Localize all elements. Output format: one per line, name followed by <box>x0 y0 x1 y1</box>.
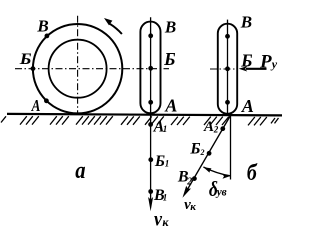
svg-text:Б: Б <box>189 140 200 157</box>
svg-text:А: А <box>164 96 177 116</box>
svg-text:1: 1 <box>163 124 168 134</box>
svg-text:Б: Б <box>163 49 175 69</box>
svg-text:P: P <box>259 52 272 73</box>
svg-text:у: у <box>270 57 278 71</box>
svg-text:1: 1 <box>163 192 168 202</box>
svg-text:ув: ув <box>215 185 227 199</box>
svg-text:А: А <box>203 119 214 135</box>
svg-text:Б: Б <box>19 51 32 68</box>
svg-text:2: 2 <box>213 124 219 134</box>
svg-text:В: В <box>36 17 48 36</box>
svg-text:а: а <box>75 158 85 184</box>
svg-text:б: б <box>247 160 258 185</box>
svg-text:А: А <box>31 96 41 115</box>
svg-text:к: к <box>162 215 169 229</box>
svg-text:В: В <box>240 13 252 32</box>
svg-text:В: В <box>164 17 176 36</box>
svg-text:2: 2 <box>186 177 192 188</box>
svg-text:к: к <box>190 201 196 213</box>
svg-text:Б: Б <box>154 153 165 170</box>
svg-text:А: А <box>241 96 254 116</box>
svg-text:v: v <box>154 206 163 230</box>
svg-text:Б: Б <box>240 50 252 70</box>
svg-text:2: 2 <box>200 148 205 157</box>
svg-text:1: 1 <box>165 159 170 169</box>
